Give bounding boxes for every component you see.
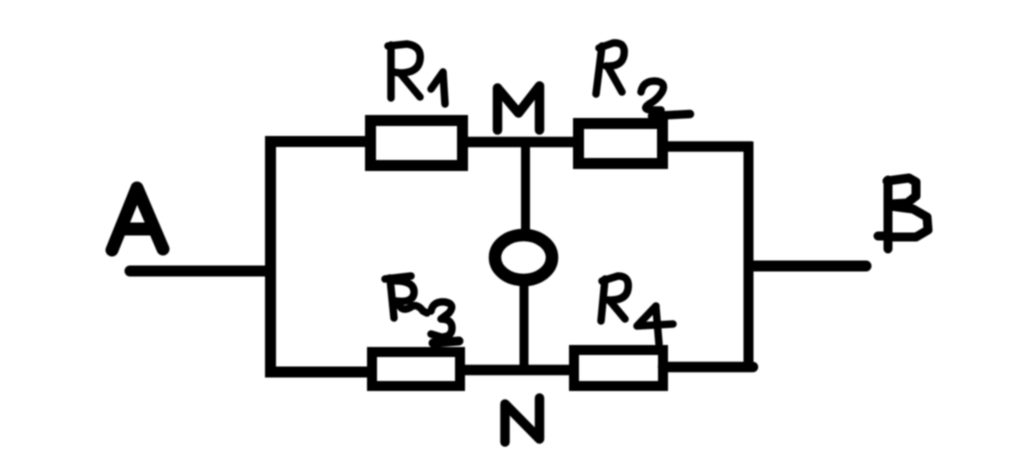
wire R2 to right bus xyxy=(663,141,752,152)
wire left bus to R3 xyxy=(265,367,375,378)
wire left bus to R1 xyxy=(265,136,370,147)
label R2 xyxy=(596,43,690,116)
label R4 xyxy=(601,276,673,344)
terminal label A xyxy=(112,188,163,250)
wire R3 to R4 through node N xyxy=(460,365,574,376)
resistor R1 xyxy=(371,121,463,166)
wire galvanometer to N xyxy=(520,280,529,372)
left bus wire xyxy=(265,136,276,378)
resistor R4 xyxy=(574,350,663,386)
wire A lead xyxy=(130,266,268,277)
resistor R2 xyxy=(579,124,663,164)
wire R4 to right bus xyxy=(663,362,753,373)
wire M to galvanometer xyxy=(521,145,530,235)
right bus wire xyxy=(744,142,754,368)
wire R1 to R2 through node M xyxy=(462,137,578,148)
label R1 xyxy=(388,44,445,104)
galvanometer circle xyxy=(495,235,552,280)
resistor R3 xyxy=(372,352,460,386)
node N label xyxy=(505,398,540,442)
label R3 xyxy=(385,276,459,343)
terminal label B xyxy=(878,178,928,249)
wire B lead xyxy=(750,261,866,272)
node M label xyxy=(498,86,540,130)
